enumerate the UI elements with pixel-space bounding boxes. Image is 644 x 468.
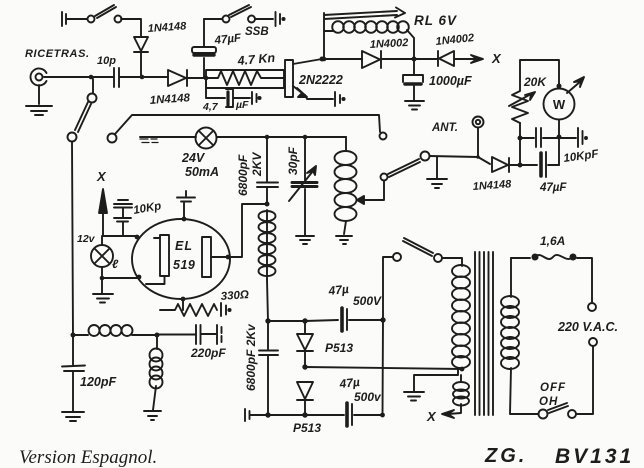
svg-text:µF: µF bbox=[235, 99, 249, 111]
svg-text:519: 519 bbox=[173, 258, 195, 272]
svg-text:OFF: OFF bbox=[540, 382, 566, 394]
svg-text:Version Espagnol.: Version Espagnol. bbox=[19, 447, 157, 468]
svg-text:220pF: 220pF bbox=[190, 346, 226, 360]
svg-text:500V: 500V bbox=[353, 294, 382, 308]
svg-text:ZG.: ZG. bbox=[484, 445, 527, 467]
svg-text:6800pF 2Kv: 6800pF 2Kv bbox=[244, 323, 258, 391]
svg-text:X: X bbox=[491, 51, 502, 66]
svg-text:20K: 20K bbox=[523, 75, 547, 89]
svg-text:6800pF: 6800pF bbox=[236, 154, 250, 196]
svg-text:X: X bbox=[96, 169, 107, 184]
svg-text:120pF: 120pF bbox=[80, 375, 116, 389]
svg-text:RL 6V: RL 6V bbox=[414, 13, 457, 28]
svg-text:2KV: 2KV bbox=[250, 152, 264, 177]
svg-text:4,7: 4,7 bbox=[202, 101, 219, 113]
svg-text:EL: EL bbox=[175, 239, 193, 253]
svg-text:1N4002: 1N4002 bbox=[370, 37, 409, 51]
svg-text:220 V.A.C.: 220 V.A.C. bbox=[557, 320, 618, 334]
svg-text:50mA: 50mA bbox=[185, 165, 219, 179]
svg-text:P513: P513 bbox=[325, 341, 353, 355]
svg-text:500v: 500v bbox=[354, 390, 382, 404]
svg-text:47µ: 47µ bbox=[338, 375, 361, 391]
svg-text:ANT.: ANT. bbox=[431, 122, 458, 134]
svg-text:12v: 12v bbox=[77, 233, 96, 245]
svg-text:BV131: BV131 bbox=[555, 445, 634, 468]
svg-text:W: W bbox=[553, 97, 566, 112]
svg-text:X: X bbox=[426, 409, 437, 424]
svg-text:RICETRAS.: RICETRAS. bbox=[25, 48, 90, 60]
svg-text:1,6A: 1,6A bbox=[540, 234, 565, 248]
svg-text:SSB: SSB bbox=[245, 26, 269, 38]
svg-text:10p: 10p bbox=[97, 55, 116, 67]
svg-text:30pF: 30pF bbox=[286, 146, 300, 175]
svg-text:1000µF: 1000µF bbox=[429, 74, 472, 88]
svg-text:330Ω: 330Ω bbox=[220, 289, 249, 303]
svg-text:2N2222: 2N2222 bbox=[298, 73, 343, 87]
svg-text:ℓ: ℓ bbox=[112, 257, 119, 271]
svg-text:OH: OH bbox=[539, 396, 558, 408]
svg-text:P513: P513 bbox=[293, 421, 321, 435]
svg-text:47µF: 47µF bbox=[539, 182, 567, 194]
svg-text:47µ: 47µ bbox=[327, 282, 350, 298]
svg-text:24V: 24V bbox=[181, 151, 206, 165]
